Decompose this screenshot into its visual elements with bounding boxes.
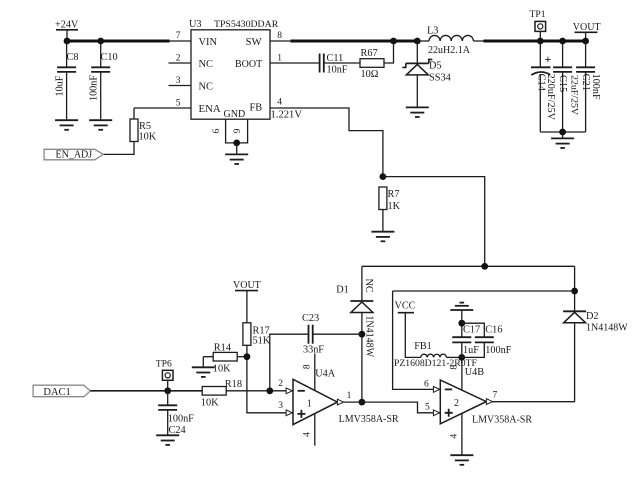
- wire C16 bottom path: [462, 343, 485, 358]
- svg-text:1N4148W: 1N4148W: [586, 322, 628, 333]
- wire C14 top lead: [539, 41, 541, 67]
- wire D1 anode lead: [361, 313, 363, 402]
- svg-text:33nF: 33nF: [303, 344, 324, 355]
- svg-text:5: 5: [425, 403, 430, 413]
- test point TP6: [162, 370, 173, 380]
- svg-text:1K: 1K: [388, 201, 401, 212]
- op U3 TPS5430DDAR body: [191, 30, 270, 119]
- net flag EN_ADJ: [44, 149, 103, 160]
- svg-text:U3: U3: [189, 19, 202, 30]
- wire caps gnd stem: [562, 132, 564, 138]
- svg-text:NC: NC: [199, 82, 214, 93]
- svg-text:1.221V: 1.221V: [271, 109, 303, 120]
- wire C14 bottom lead: [539, 74, 541, 132]
- svg-text:100nF: 100nF: [89, 75, 100, 101]
- svg-text:LMV358A-SR: LMV358A-SR: [472, 414, 532, 425]
- wire R67 to rail: [384, 41, 394, 63]
- net flag DAC1: [33, 385, 90, 397]
- wire R18 to pin2: [226, 390, 293, 392]
- ground (D5): [406, 107, 429, 117]
- wire U4A out to U4B pin5: [362, 402, 440, 413]
- svg-text:D2: D2: [586, 311, 599, 322]
- wire C17 bottom lead: [461, 342, 463, 357]
- svg-text:VOUT: VOUT: [233, 280, 261, 291]
- junction R17/R14: [244, 353, 251, 360]
- wire C8 bottom lead: [66, 72, 68, 120]
- wire D2 anode lead: [574, 323, 576, 402]
- wire C8 top lead: [66, 41, 68, 67]
- wire L3 to VOUT rail: [473, 40, 484, 42]
- svg-text:NC: NC: [363, 279, 374, 293]
- svg-text:2: 2: [176, 53, 181, 63]
- svg-text:10uF: 10uF: [55, 75, 66, 96]
- svg-text:C17: C17: [463, 325, 480, 336]
- resistor R14 body: [213, 352, 237, 361]
- svg-text:D5: D5: [429, 61, 442, 72]
- svg-text:1: 1: [347, 391, 352, 401]
- svg-text:C21: C21: [580, 74, 591, 91]
- pin arrow U4B out: [486, 399, 492, 405]
- svg-text:6: 6: [424, 379, 429, 389]
- wire U4A V+ stub: [314, 354, 316, 391]
- junction D2 net: [571, 288, 578, 295]
- wire to D2 cathode: [574, 266, 576, 311]
- svg-text:ENA: ENA: [199, 103, 221, 115]
- svg-text:4: 4: [449, 434, 459, 439]
- svg-text:TP1: TP1: [530, 9, 546, 20]
- wire pin2 to C23: [270, 334, 309, 391]
- svg-text:+24V: +24V: [55, 20, 79, 31]
- junction VCC filtered: [458, 354, 465, 361]
- wire D1 top lead: [361, 266, 363, 301]
- resistor R67 body: [360, 59, 384, 68]
- ground (R7): [371, 232, 394, 242]
- svg-text:LMV358A-SR: LMV358A-SR: [339, 414, 399, 425]
- resistor R5 body: [130, 119, 138, 142]
- ferrite bead FB1: [421, 354, 447, 357]
- wire SW thick rail: [291, 40, 419, 43]
- ground (R14): [192, 367, 215, 377]
- pin arrow U4A in+: [286, 410, 292, 416]
- svg-text:C10: C10: [101, 52, 118, 63]
- svg-text:GND: GND: [224, 109, 246, 120]
- svg-text:9: 9: [233, 128, 243, 133]
- capacitor C15 plates: [553, 67, 572, 72]
- capacitor C16: [475, 337, 494, 342]
- svg-text:51K: 51K: [253, 336, 271, 347]
- svg-text:7: 7: [493, 391, 498, 401]
- svg-text:4: 4: [302, 432, 312, 437]
- svg-text:100nF: 100nF: [590, 74, 601, 100]
- svg-text:10K: 10K: [213, 364, 231, 375]
- resistor R17 body: [243, 323, 251, 346]
- wire D5 anode lead: [416, 75, 418, 108]
- svg-text:2: 2: [278, 379, 283, 389]
- wire D5 cathode lead: [416, 41, 418, 63]
- svg-text:10K: 10K: [201, 397, 219, 408]
- diode D2: [563, 311, 586, 323]
- junction +24V/C8: [64, 38, 71, 45]
- svg-text:8: 8: [302, 364, 312, 369]
- junction D5 tap: [414, 38, 421, 45]
- wire TP1 stub: [539, 31, 541, 41]
- junction C15 tap: [559, 38, 566, 45]
- svg-text:D1: D1: [336, 284, 349, 295]
- capacitor C24 plates: [158, 405, 177, 410]
- svg-text:R18: R18: [225, 379, 242, 390]
- inductor L3: [429, 35, 473, 41]
- capacitor C23 plates: [309, 325, 313, 344]
- svg-text:10nF: 10nF: [327, 65, 348, 76]
- resistor R7 body: [379, 187, 387, 210]
- wire SW pin wire: [270, 40, 292, 42]
- svg-text:1: 1: [277, 53, 282, 63]
- wire C21 top lead: [585, 41, 587, 67]
- svg-text:C11: C11: [327, 53, 344, 64]
- wire VOUT stem: [585, 32, 587, 41]
- wire U4B V- stub: [461, 413, 463, 455]
- wire U3 pin5 ENA: [134, 107, 191, 109]
- junction C17 top: [458, 320, 465, 327]
- junction R7 top: [380, 173, 387, 180]
- wire R14 left lead: [203, 356, 213, 358]
- svg-text:8: 8: [277, 31, 282, 41]
- svg-text:R7: R7: [388, 189, 400, 200]
- capacitor C10 plates: [91, 67, 110, 72]
- svg-text:6: 6: [212, 128, 222, 133]
- junction U3 gnd: [233, 140, 240, 147]
- wire C24 top lead: [167, 391, 169, 406]
- wire U3 pin2 NC: [169, 62, 192, 64]
- wire C16 top path: [462, 323, 485, 337]
- svg-text:TPS5430DDAR: TPS5430DDAR: [214, 19, 279, 30]
- wire C11 to R67: [324, 62, 360, 64]
- wire VCC to FB1: [405, 313, 421, 358]
- junction TP6 node: [164, 387, 171, 394]
- wire C15 top lead: [562, 41, 564, 67]
- junction C10 tap: [97, 38, 104, 45]
- svg-text:C16: C16: [485, 325, 502, 336]
- wire U4B out wire: [493, 401, 575, 403]
- svg-text:100nF: 100nF: [168, 414, 194, 425]
- svg-text:10Ω: 10Ω: [361, 69, 379, 80]
- svg-text:SW: SW: [246, 36, 263, 48]
- svg-text:NC: NC: [199, 59, 214, 70]
- svg-text:VCC: VCC: [395, 301, 416, 312]
- diode D5: [402, 59, 432, 75]
- wire DAC1: [90, 390, 202, 392]
- svg-text:5: 5: [176, 98, 181, 108]
- wire U4B out to D2: [486, 401, 574, 403]
- ground flipped (VCC): [450, 303, 473, 310]
- svg-text:C8: C8: [67, 52, 79, 63]
- svg-text:U4A: U4A: [315, 369, 335, 380]
- wire caps gnd bus: [540, 131, 585, 133]
- svg-text:FB1: FB1: [414, 341, 432, 352]
- wire R7 bottom lead: [382, 210, 384, 232]
- svg-text:220uF/25V: 220uF/25V: [545, 74, 556, 121]
- junction caps gnd: [559, 129, 566, 136]
- junction pin2 node: [266, 387, 273, 394]
- junction VOUT/C21 tap: [582, 38, 589, 45]
- capacitor C11 plates: [320, 54, 324, 73]
- wire VOUT to R17: [246, 291, 248, 323]
- ground (C10): [89, 120, 112, 130]
- svg-text:3: 3: [176, 76, 181, 86]
- wire feedback to U4B: [393, 290, 575, 292]
- svg-text:7: 7: [176, 31, 181, 41]
- ground (U3): [225, 154, 248, 164]
- wire FB to divider: [383, 177, 485, 267]
- svg-text:1: 1: [307, 399, 312, 410]
- wire R14 right lead: [237, 356, 247, 358]
- diode D1: [350, 301, 373, 313]
- wire C21 bottom lead: [585, 72, 587, 132]
- svg-text:R67: R67: [361, 48, 378, 59]
- svg-text:SS34: SS34: [429, 72, 451, 83]
- wire U4B V+ stub: [461, 357, 463, 390]
- svg-text:BOOT: BOOT: [235, 59, 262, 70]
- svg-text:R14: R14: [214, 342, 231, 353]
- svg-text:VOUT: VOUT: [573, 22, 601, 33]
- op-amp U4A LMV358A-SR: [293, 379, 337, 424]
- wire FB1 to node: [446, 356, 461, 358]
- svg-text:100nF: 100nF: [485, 345, 511, 356]
- svg-text:4: 4: [277, 98, 282, 108]
- junction C23/D1: [359, 331, 366, 338]
- junction R67 tap: [390, 38, 397, 45]
- pin arrow U4B in+: [433, 410, 439, 416]
- wire divider bus: [362, 265, 575, 267]
- svg-text:1uF: 1uF: [463, 345, 479, 356]
- svg-text:C24: C24: [169, 425, 186, 436]
- svg-text:TP6: TP6: [156, 359, 172, 370]
- svg-text:L3: L3: [427, 25, 438, 36]
- capacitor C8 plates: [57, 67, 76, 72]
- junction U4A out node: [359, 399, 366, 406]
- junction C14 tap: [537, 38, 544, 45]
- ground (C24): [156, 435, 179, 445]
- op-amp U4B LMV358A-SR: [440, 380, 486, 424]
- junction divider mid: [481, 263, 488, 270]
- wire VOUT thick rail: [484, 40, 587, 43]
- svg-text:C23: C23: [302, 313, 319, 324]
- ground (U4B): [450, 455, 473, 465]
- wire R17 to pin3: [247, 345, 293, 413]
- svg-text:22uF/25V: 22uF/25V: [569, 75, 580, 116]
- svg-text:VIN: VIN: [199, 37, 218, 48]
- wire C24 bottom lead: [167, 410, 169, 435]
- svg-text:DAC1: DAC1: [43, 387, 70, 398]
- svg-text:1N4148W: 1N4148W: [363, 315, 374, 357]
- wire U3 gnd stem: [236, 143, 238, 155]
- svg-text:2: 2: [454, 398, 459, 409]
- wire R5 top lead: [133, 108, 135, 119]
- svg-text:10K: 10K: [139, 131, 157, 142]
- svg-text:+: +: [545, 52, 552, 66]
- wire TP6 stub: [167, 380, 169, 391]
- wire C17 top lead: [461, 323, 463, 337]
- pin arrow U4A in-: [286, 388, 292, 394]
- capacitor C21 plates: [576, 67, 595, 72]
- wire R14 gnd stem: [202, 357, 204, 368]
- wire VCC gnd stem: [461, 310, 463, 323]
- ground (output caps): [551, 138, 574, 148]
- wire +24V stem: [66, 30, 68, 41]
- svg-text:22uH2.1A: 22uH2.1A: [428, 45, 471, 56]
- wire BOOT pin wire: [270, 62, 320, 64]
- wire +24V thick rail: [66, 40, 170, 43]
- test point TP1: [535, 21, 546, 31]
- wire U3 pin3 NC: [169, 85, 192, 87]
- wire FB net: [270, 108, 383, 177]
- wire C23 to D1 node: [313, 333, 362, 335]
- svg-text:C15: C15: [557, 75, 568, 92]
- ground (C8): [55, 120, 78, 130]
- wire U4B pin6 wire: [393, 291, 441, 389]
- pin arrow U4B in-: [433, 387, 439, 393]
- svg-text:PZ1608D121-2R0TF: PZ1608D121-2R0TF: [394, 358, 478, 369]
- wire C10 bottom lead: [100, 72, 102, 120]
- wire U3 GND stubs: [226, 119, 248, 143]
- svg-text:FB: FB: [250, 103, 263, 114]
- wire rail to L3: [419, 40, 430, 42]
- wire R5 to EN_ADJ: [103, 142, 134, 155]
- resistor R18 body: [202, 387, 226, 396]
- pin arrow U4A out: [337, 399, 343, 405]
- wire C10 top lead: [100, 41, 102, 67]
- wire U4A V- stub: [314, 413, 316, 445]
- svg-text:EN_ADJ: EN_ADJ: [56, 150, 93, 161]
- svg-text:C14: C14: [535, 74, 546, 92]
- wire U4A out wire: [344, 401, 362, 403]
- wire VIN pin wire: [170, 40, 192, 42]
- wire C15 bottom lead: [562, 72, 564, 132]
- svg-text:3: 3: [278, 401, 283, 411]
